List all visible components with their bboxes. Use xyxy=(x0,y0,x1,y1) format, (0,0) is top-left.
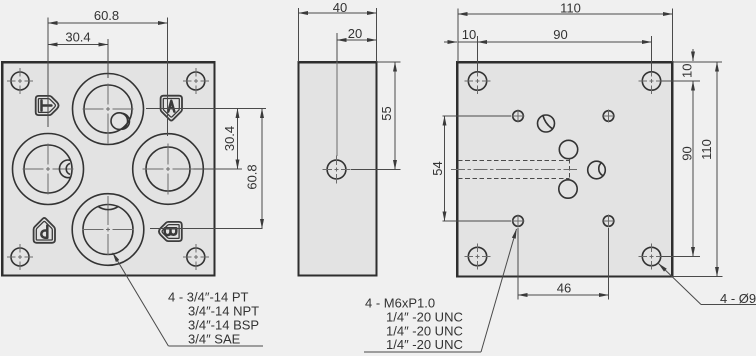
tapped hole M6 1 xyxy=(512,110,525,123)
mounting hole front corner 4 xyxy=(183,244,209,270)
port right (B) xyxy=(133,134,204,205)
tapped hole M6 3 xyxy=(512,215,525,228)
extension line left x48 xyxy=(47,18,49,128)
dimension 54 left xyxy=(430,116,511,221)
leader to M6 hole xyxy=(364,229,517,352)
svg-text:20: 20 xyxy=(348,26,362,41)
extension line right x167.5 xyxy=(167,18,169,137)
port top (A) xyxy=(73,74,144,145)
mounting hole back corner 4 xyxy=(639,244,665,270)
dimension 10 top xyxy=(444,27,478,72)
svg-text:110: 110 xyxy=(699,139,714,160)
port marker badge T xyxy=(36,96,59,115)
back view plate xyxy=(457,62,672,276)
back port B xyxy=(559,180,577,198)
back port A xyxy=(559,140,577,158)
dimension 110 top xyxy=(458,1,672,63)
leader to bottom port xyxy=(113,253,263,346)
svg-text:30.4: 30.4 xyxy=(222,126,237,151)
mounting hole back corner 3 xyxy=(465,244,491,270)
svg-text:46: 46 xyxy=(557,281,571,296)
side view plate xyxy=(299,62,377,275)
svg-text:60.8: 60.8 xyxy=(94,8,119,23)
port thread note text xyxy=(168,290,259,347)
tapped hole M6 4 xyxy=(602,215,615,228)
centerline stub below top port xyxy=(107,135,109,144)
leader to corner hole xyxy=(659,264,756,305)
svg-text:54: 54 xyxy=(430,161,445,175)
extension line y108.5 xyxy=(146,108,266,110)
mounting hole back corner 1 xyxy=(465,68,491,94)
side hole centerline vertical xyxy=(336,62,338,156)
tapped hole M6 2 xyxy=(602,110,615,123)
side hole xyxy=(323,156,351,184)
svg-text:30.4: 30.4 xyxy=(65,30,90,45)
svg-text:3/4″ SAE: 3/4″ SAE xyxy=(188,332,241,347)
svg-text:4 - 3/4″-14 PT: 4 - 3/4″-14 PT xyxy=(168,290,249,305)
svg-text:4 - M6xP1.0: 4 - M6xP1.0 xyxy=(365,296,435,311)
spot hole in left port xyxy=(59,160,70,178)
svg-text:3/4″-14 BSP: 3/4″-14 BSP xyxy=(188,318,259,333)
centerline stub above bottom port xyxy=(107,196,109,204)
port marker badge P xyxy=(34,218,55,243)
back port T with chord xyxy=(538,115,555,132)
extension line mid x108 xyxy=(107,39,109,78)
hidden channel dashed lines xyxy=(458,159,570,180)
dimension 20 xyxy=(337,26,377,62)
front view plate xyxy=(2,62,214,275)
svg-text:90: 90 xyxy=(553,27,567,42)
extension line y228.5 xyxy=(150,228,263,230)
back port P with arc xyxy=(588,161,606,179)
dimension 30.4 right xyxy=(222,109,238,170)
dimension 110 right xyxy=(672,62,722,277)
svg-text:90: 90 xyxy=(680,146,695,160)
svg-text:10: 10 xyxy=(680,64,695,78)
svg-text:1/4″ -20 UNC: 1/4″ -20 UNC xyxy=(386,337,463,352)
dimension 30.4 top xyxy=(48,30,108,45)
svg-text:40: 40 xyxy=(333,0,347,15)
mounting hole front corner 1 xyxy=(7,68,33,94)
dimension 60.8 right xyxy=(245,109,263,229)
port marker badge A xyxy=(161,96,182,121)
dimension 40 xyxy=(299,0,377,62)
svg-text:3/4″-14 NPT: 3/4″-14 NPT xyxy=(188,304,259,319)
port marker badge B xyxy=(159,222,182,241)
svg-text:55: 55 xyxy=(379,106,394,120)
tapped hole note text xyxy=(365,296,463,353)
hidden channel centerline xyxy=(451,169,577,171)
dimension 90 right xyxy=(661,81,700,257)
svg-text:4 - Ø9: 4 - Ø9 xyxy=(720,291,756,306)
svg-text:1/4″ -20 UNC: 1/4″ -20 UNC xyxy=(386,310,463,325)
dimension 10 right xyxy=(661,49,722,81)
dimension 60.8 top xyxy=(48,8,168,23)
port bottom (T) xyxy=(72,194,144,266)
mounting hole back corner 2 xyxy=(639,68,665,94)
dimension 55 xyxy=(351,62,401,170)
spot arc in bottom port xyxy=(98,206,119,209)
spot hole in top port xyxy=(111,113,129,130)
svg-text:110: 110 xyxy=(560,1,581,16)
mounting hole front corner 3 xyxy=(7,244,33,270)
dimension 90 top xyxy=(478,27,652,72)
port left (P) xyxy=(13,134,84,205)
dimension 46 bottom xyxy=(518,228,609,300)
extension line y169 xyxy=(194,168,243,170)
svg-text:60.8: 60.8 xyxy=(245,164,260,189)
svg-text:10: 10 xyxy=(462,27,476,42)
mounting hole front corner 2 xyxy=(183,68,209,94)
